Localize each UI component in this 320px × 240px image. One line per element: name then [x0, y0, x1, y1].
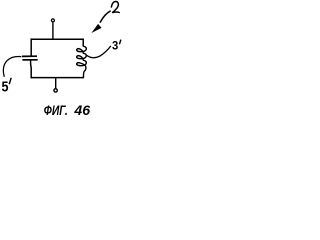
wire: box bottom edge: [31, 77, 84, 79]
svg-text:3: 3: [112, 39, 119, 53]
figure arrow shaft (to label 2): [100, 11, 111, 23]
svg-text:46: 46: [73, 103, 90, 118]
leader line to label 5': [3, 56, 21, 76]
inductor L (3') coil loops: [77, 46, 87, 77]
capacitor C (5') bottom plate: [22, 59, 37, 61]
label 3' prime tick: [119, 40, 121, 45]
label 2: [111, 1, 119, 12]
wire: box right edge upper segment: [82, 38, 84, 46]
background: [0, 0, 128, 120]
terminal stub top: [52, 23, 54, 40]
wire: box left edge upper segment: [30, 38, 33, 55]
terminal stub bottom: [55, 78, 57, 89]
terminal circle bottom: [54, 89, 57, 92]
leader line to label 3': [87, 46, 111, 58]
label 5' prime tick: [9, 78, 11, 84]
wire: box top edge: [31, 38, 83, 40]
wire: box left edge lower segment: [30, 61, 33, 79]
svg-text:ФИГ.: ФИГ.: [44, 103, 68, 118]
terminal circle top: [51, 19, 54, 22]
svg-text:5: 5: [2, 79, 9, 96]
capacitor C (5') top plate: [22, 55, 37, 57]
figure arrow head: [91, 24, 101, 33]
